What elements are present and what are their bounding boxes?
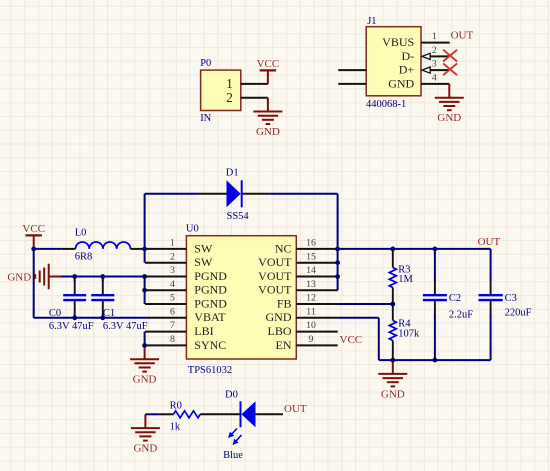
svg-text:OUT: OUT	[451, 29, 474, 41]
svg-text:C2: C2	[449, 293, 461, 304]
svg-text:4: 4	[170, 279, 175, 290]
svg-text:SW: SW	[194, 255, 213, 269]
svg-text:2: 2	[170, 251, 175, 262]
svg-text:VCC: VCC	[22, 223, 45, 235]
svg-text:SYNC: SYNC	[194, 338, 226, 352]
svg-text:PGND: PGND	[194, 296, 227, 310]
svg-text:EN: EN	[276, 338, 292, 352]
svg-text:U0: U0	[186, 223, 199, 234]
svg-text:5: 5	[170, 293, 175, 304]
svg-text:6.3V 47uF: 6.3V 47uF	[49, 321, 94, 332]
svg-text:GND: GND	[266, 310, 292, 324]
svg-text:1: 1	[226, 76, 233, 91]
svg-text:6R8: 6R8	[75, 251, 93, 262]
svg-text:D0: D0	[225, 389, 238, 400]
svg-text:NC: NC	[275, 241, 292, 255]
svg-text:IN: IN	[200, 113, 211, 124]
svg-text:VCC: VCC	[257, 58, 280, 70]
svg-text:14: 14	[306, 265, 316, 276]
svg-text:SW: SW	[194, 241, 213, 255]
svg-text:Blue: Blue	[223, 450, 243, 461]
svg-text:C3: C3	[505, 293, 517, 304]
svg-text:L0: L0	[75, 228, 87, 239]
svg-text:1k: 1k	[170, 422, 181, 433]
svg-text:OUT: OUT	[478, 236, 501, 248]
svg-text:1M: 1M	[398, 274, 413, 285]
svg-text:220uF: 220uF	[505, 308, 532, 319]
svg-text:GND: GND	[133, 443, 157, 455]
svg-text:10: 10	[306, 320, 316, 331]
svg-text:11: 11	[306, 306, 316, 317]
svg-text:VOUT: VOUT	[258, 255, 292, 269]
svg-text:J1: J1	[367, 16, 376, 27]
svg-text:13: 13	[306, 279, 316, 290]
svg-text:VOUT: VOUT	[258, 283, 292, 297]
svg-text:440068-1: 440068-1	[366, 99, 406, 110]
svg-text:LBI: LBI	[194, 324, 213, 338]
svg-text:VOUT: VOUT	[258, 269, 292, 283]
svg-text:16: 16	[306, 238, 316, 249]
svg-text:PGND: PGND	[194, 283, 227, 297]
svg-text:C0: C0	[49, 308, 61, 319]
svg-text:12: 12	[306, 293, 316, 304]
svg-text:8: 8	[170, 334, 175, 345]
svg-text:VCC: VCC	[340, 334, 363, 346]
svg-text:3: 3	[432, 59, 437, 70]
svg-text:D-: D-	[402, 49, 415, 63]
svg-text:9: 9	[309, 334, 314, 345]
svg-text:D1: D1	[226, 168, 239, 179]
svg-text:VBAT: VBAT	[194, 310, 226, 324]
svg-text:VBUS: VBUS	[382, 35, 414, 49]
svg-text:R0: R0	[170, 401, 182, 412]
svg-text:TPS61032: TPS61032	[188, 365, 232, 376]
svg-text:PGND: PGND	[194, 269, 227, 283]
svg-text:LBO: LBO	[268, 324, 292, 338]
svg-text:OUT: OUT	[284, 403, 307, 415]
svg-text:FB: FB	[277, 296, 292, 310]
svg-text:1: 1	[170, 238, 175, 249]
svg-text:15: 15	[306, 251, 316, 262]
svg-text:2: 2	[432, 45, 437, 56]
svg-text:SS54: SS54	[227, 211, 250, 222]
svg-text:1: 1	[432, 31, 437, 42]
svg-text:GND: GND	[437, 112, 461, 124]
svg-text:GND: GND	[256, 126, 280, 138]
svg-text:2.2uF: 2.2uF	[449, 309, 473, 320]
svg-text:4: 4	[432, 73, 437, 84]
svg-text:6.3V 47uF: 6.3V 47uF	[103, 321, 148, 332]
svg-text:GND: GND	[7, 271, 31, 283]
svg-text:P0: P0	[200, 58, 211, 69]
svg-text:6: 6	[170, 306, 175, 317]
svg-text:D+: D+	[399, 63, 415, 77]
svg-text:GND: GND	[381, 388, 405, 400]
svg-text:3: 3	[170, 265, 175, 276]
svg-text:GND: GND	[388, 76, 414, 90]
svg-text:107k: 107k	[398, 328, 420, 339]
svg-text:2: 2	[226, 90, 233, 105]
svg-text:GND: GND	[133, 374, 157, 386]
svg-text:7: 7	[170, 320, 175, 331]
